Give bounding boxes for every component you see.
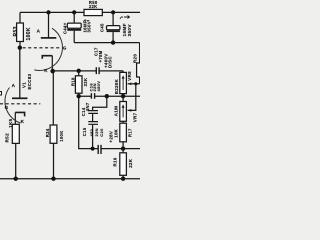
- wire mid bus 42.6: [74, 42, 139, 44]
- wire R34 bottom lead: [53, 143, 55, 178]
- tube lower envelope arc: [5, 88, 21, 124]
- resistor R53: [17, 23, 24, 42]
- wire R16 leads: [122, 149, 124, 179]
- node A (R53 / grid2 / lower anode): [18, 46, 22, 50]
- svg-text:C45: C45: [100, 23, 105, 32]
- tube upper cathode: [42, 56, 52, 59]
- node junction R16 / ground bus: [121, 177, 125, 181]
- svg-text:C44+: C44+: [62, 22, 67, 34]
- resistor R34: [50, 125, 57, 143]
- resistor R18: [75, 76, 82, 93]
- node junction y96 / C14 branch: [105, 94, 109, 98]
- wire R20 bottom lead: [139, 77, 141, 84]
- svg-text:33K: 33K: [83, 78, 88, 87]
- node wiper tee: [134, 82, 137, 85]
- wire R53 bottom lead: [19, 42, 21, 48]
- capacitor C14: [88, 111, 98, 114]
- resistor R52: [12, 124, 19, 143]
- ground bus: [0, 178, 140, 180]
- squiggle mark above C45 value text: [120, 16, 130, 20]
- wire C15 bottom lead: [92, 124, 94, 148]
- svg-text:ECC83: ECC83: [27, 73, 32, 89]
- wire R18 top lead: [78, 71, 80, 76]
- node junction R52 / ground: [14, 177, 18, 181]
- wire R18 bottom lead down to bottom mid bus: [79, 93, 99, 148]
- wire R17 bottom lead: [122, 142, 124, 149]
- node junction R34 / ground: [51, 177, 55, 181]
- svg-text:R16: R16: [112, 157, 117, 166]
- capacitor C45 electrolytic top plate: [107, 26, 120, 30]
- wire R34 feed down: [52, 71, 54, 125]
- svg-text:R34: R34: [45, 128, 50, 137]
- wire VR7 top lead: [122, 96, 124, 101]
- svg-text:G: G: [63, 46, 67, 51]
- node junction R17/R16: [121, 146, 125, 150]
- wire R20 top lead: [139, 43, 141, 63]
- wire left riser to R53: [19, 12, 21, 23]
- capacitor C44 bottom plate: [67, 29, 81, 31]
- wire upper cathode lead: [51, 56, 53, 72]
- svg-text:1K5: 1K5: [8, 118, 13, 127]
- wire R52 bottom lead: [15, 143, 17, 178]
- node junction C15 / bottom mid bus: [91, 147, 95, 151]
- wire C14 branch jog: [93, 96, 107, 110]
- wire cathode bus to C17: [53, 70, 123, 72]
- wire VR7 bottom lead: [122, 121, 124, 123]
- wire lower cathode lead: [14, 112, 16, 124]
- svg-text:K: K: [44, 68, 48, 73]
- node junction R18 top: [77, 69, 81, 73]
- tube upper envelope arc: [34, 28, 62, 70]
- squiggle mark above C44 value text: [84, 20, 90, 22]
- svg-text:A: A: [37, 29, 41, 34]
- capacitor C16 series: [91, 93, 94, 99]
- svg-text:VR8: VR8: [127, 71, 132, 81]
- wire VR8 bottom lead: [122, 94, 124, 97]
- wire top bus: [20, 11, 140, 13]
- svg-text:350V: 350V: [127, 24, 132, 37]
- capacitor C17: [96, 67, 99, 74]
- svg-text:R20: R20: [132, 54, 137, 63]
- node junction top bus at C45: [111, 10, 115, 14]
- tube V1 lower triode anode plate: [12, 97, 28, 99]
- wire C44 bottom lead to mid bus: [73, 31, 75, 43]
- op -amp none ; tube V1 upper triode anode lead wire: [48, 12, 50, 37]
- wire A1M wiper riser: [128, 84, 136, 111]
- svg-text:100K: 100K: [26, 27, 32, 40]
- node junction top bus at C44: [72, 10, 76, 14]
- svg-text:DISC: DISC: [108, 56, 113, 68]
- svg-text:22K: 22K: [89, 4, 98, 9]
- wire VR8 wiper: [128, 83, 140, 85]
- svg-text:R52: R52: [4, 133, 9, 143]
- wire VR8 top feed from C17: [122, 71, 124, 73]
- node K junction upper cathode: [50, 69, 55, 74]
- svg-text:C20: C20: [99, 128, 104, 137]
- svg-text:350V: 350V: [86, 21, 91, 32]
- resistor R17: [120, 123, 127, 142]
- resistor R20 at right edge: [137, 63, 143, 77]
- svg-text:R17: R17: [128, 128, 133, 137]
- svg-text:G: G: [5, 105, 9, 110]
- node junction top bus at anode feed: [46, 10, 50, 14]
- wire lower anode feed: [19, 48, 21, 98]
- svg-text:C15: C15: [82, 127, 87, 136]
- svg-text:4N7: 4N7: [85, 102, 90, 111]
- svg-text:B220K: B220K: [114, 78, 119, 94]
- svg-text:10K: 10K: [113, 128, 118, 137]
- node junction y96 / VR7 pot top: [121, 94, 125, 98]
- wire C44 top lead: [73, 12, 75, 23]
- capacitor C20 series on bottom mid bus: [98, 145, 101, 154]
- wire C45 bottom lead: [112, 32, 114, 43]
- left edge stub glyph: [0, 92, 2, 96]
- svg-text:A: A: [12, 83, 16, 88]
- capacitor C15: [88, 122, 98, 125]
- svg-text:R18: R18: [70, 77, 75, 86]
- node junction mid bus: [111, 40, 115, 44]
- resistor R50 horizontal on top bus: [84, 9, 102, 15]
- tube lower cathode: [15, 112, 24, 116]
- potentiometer VR7 A1M: [120, 102, 127, 122]
- svg-text:450V: 450V: [96, 81, 101, 92]
- wire C14-C15 link: [92, 113, 94, 121]
- svg-text:100K: 100K: [59, 130, 64, 141]
- svg-text:R53: R53: [13, 26, 19, 36]
- wire bottom mid bus right part: [101, 148, 140, 150]
- wire C45 top lead: [112, 12, 114, 25]
- wire signal bus y96: [79, 95, 140, 97]
- svg-text:VR7: VR7: [133, 112, 138, 122]
- tube lower grid (dashed): [0, 103, 40, 105]
- resistor R16: [120, 153, 127, 176]
- capacitor C45 bottom plate: [107, 30, 120, 32]
- node junction R18 lead / y96: [77, 94, 81, 98]
- svg-text:22K: 22K: [128, 158, 133, 168]
- tube upper anode plate: [41, 37, 57, 39]
- svg-text:A1M: A1M: [114, 106, 119, 117]
- potentiometer VR8 B220K: [120, 72, 127, 93]
- tube upper grid (dashed): [23, 47, 62, 49]
- svg-text:+78M: +78M: [98, 50, 103, 62]
- capacitor C44 electrolytic top plate: [67, 23, 81, 28]
- svg-text:K: K: [21, 119, 25, 124]
